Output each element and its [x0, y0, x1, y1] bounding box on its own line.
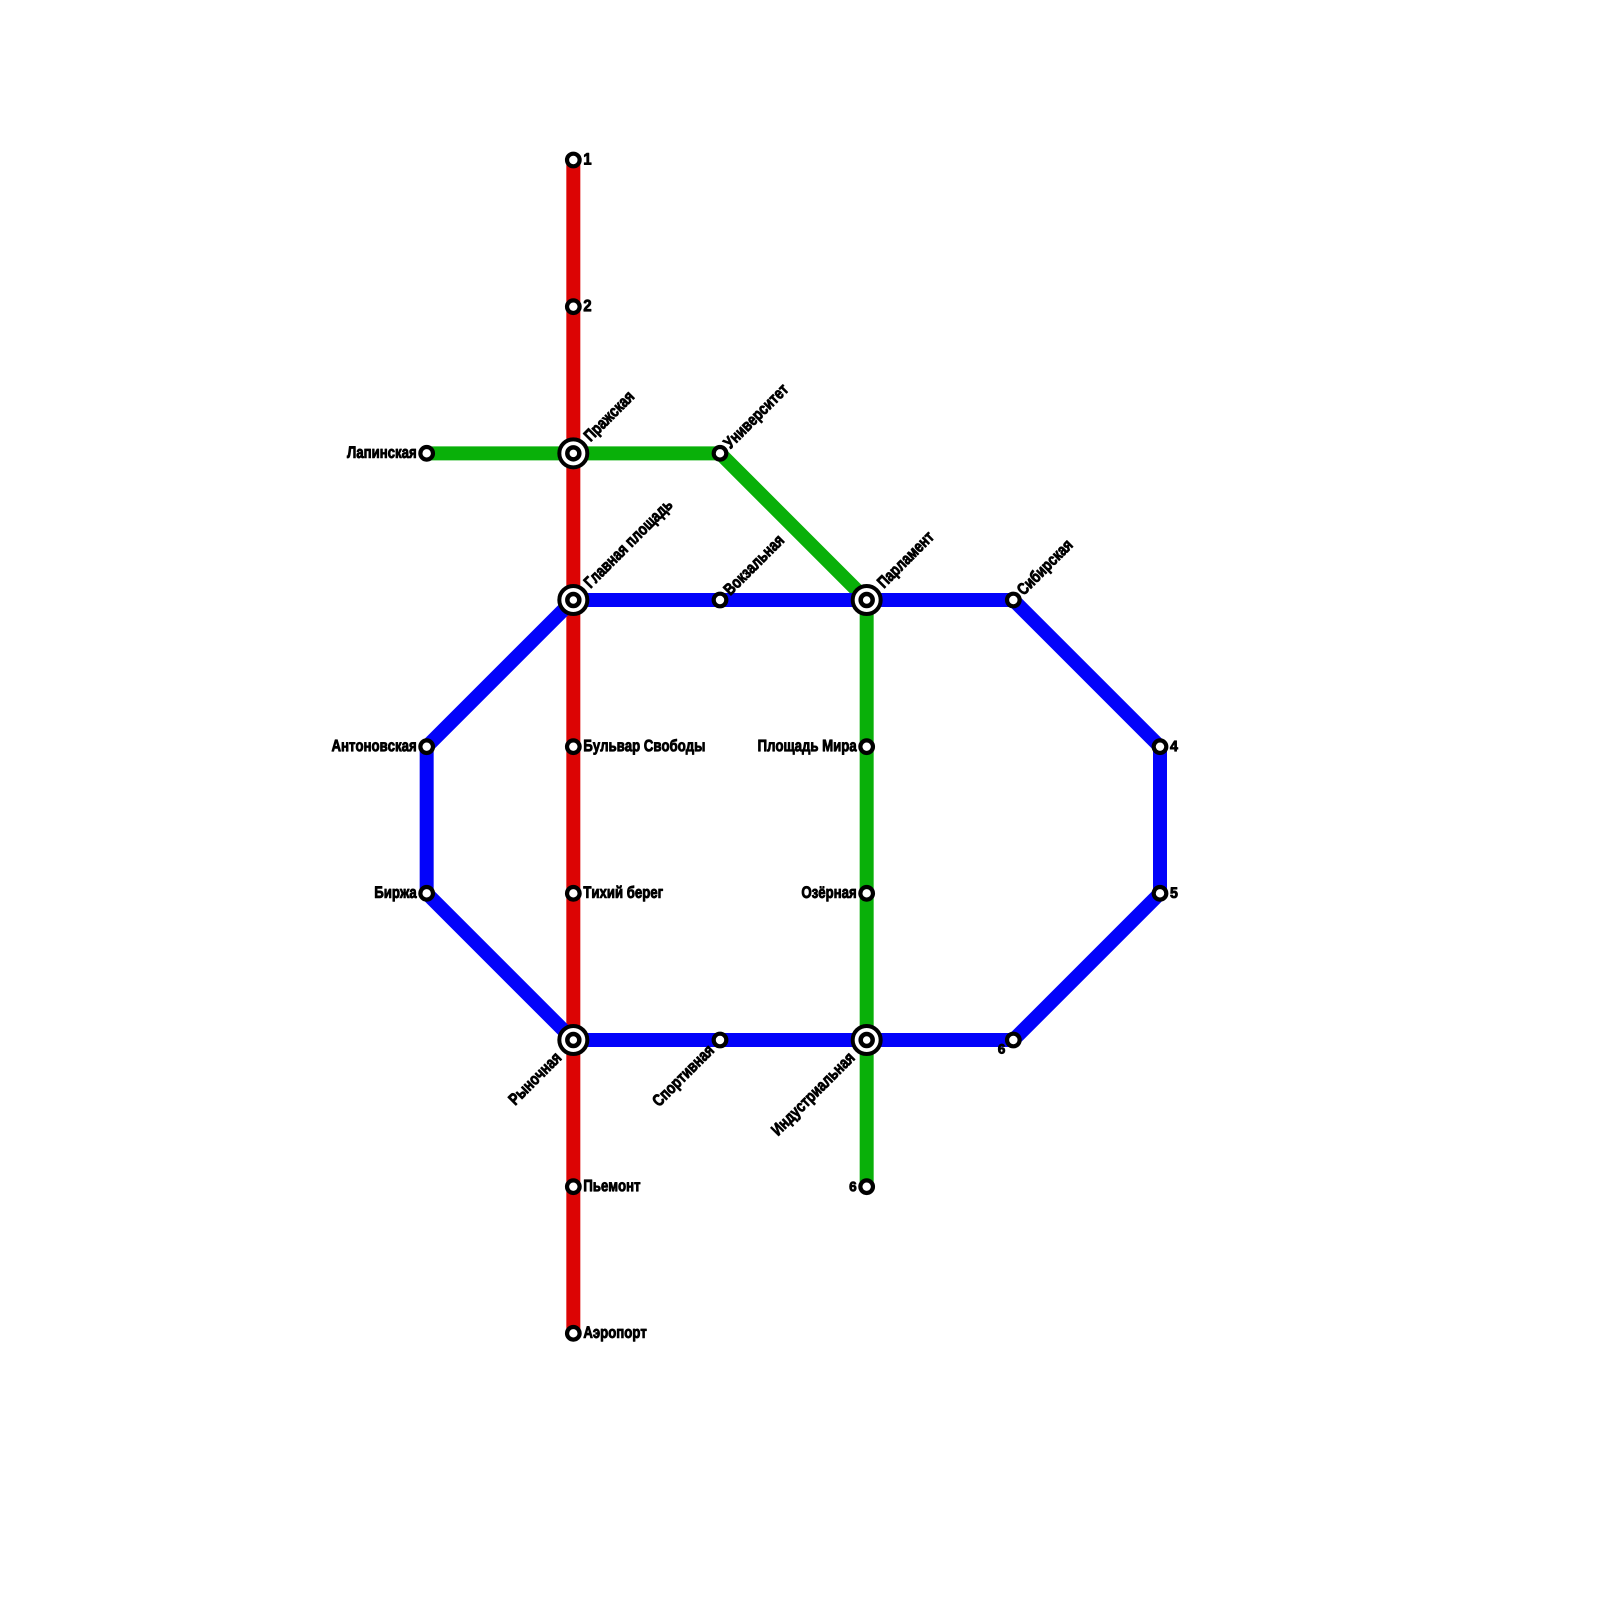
station 1 (stop)	[567, 153, 591, 166]
station Биржа (stop)	[375, 886, 433, 901]
blue circle line (loop)	[427, 600, 1160, 1040]
station Бульвар Свободы (stop)	[567, 739, 704, 755]
station Лапинская (stop)	[347, 446, 433, 459]
station 4 (stop)	[1154, 740, 1178, 753]
station Площадь Мира (stop)	[758, 740, 873, 755]
station Спортивная (stop)	[651, 1034, 726, 1110]
green line (Лапинская – Университет – Парламент – terminus 6)	[427, 453, 867, 1186]
red line (vertical, Аэропорт line)	[566, 160, 580, 1333]
station Парламент (interchange)	[853, 530, 937, 614]
station Тихий берег (stop)	[567, 886, 663, 902]
station Сибирская (stop)	[1007, 538, 1076, 606]
station 5 (stop)	[1154, 887, 1178, 900]
station Антоновская (stop)	[332, 740, 433, 753]
station Озёрная (stop)	[802, 886, 873, 901]
station 2 (stop)	[567, 300, 591, 313]
station Главная площадь (interchange)	[559, 498, 675, 614]
station Пражская (interchange)	[559, 390, 637, 467]
station 6 (stop)	[850, 1180, 873, 1193]
station Индустриальная (interchange)	[771, 1026, 881, 1138]
station Рыночная (interchange)	[508, 1026, 588, 1105]
station Аэропорт (stop)	[567, 1326, 646, 1341]
station Вокзальная (stop)	[714, 534, 785, 606]
station 6 (stop)	[998, 1034, 1019, 1054]
station Пьемонт (stop)	[567, 1180, 640, 1193]
station Университет (stop)	[714, 383, 792, 460]
